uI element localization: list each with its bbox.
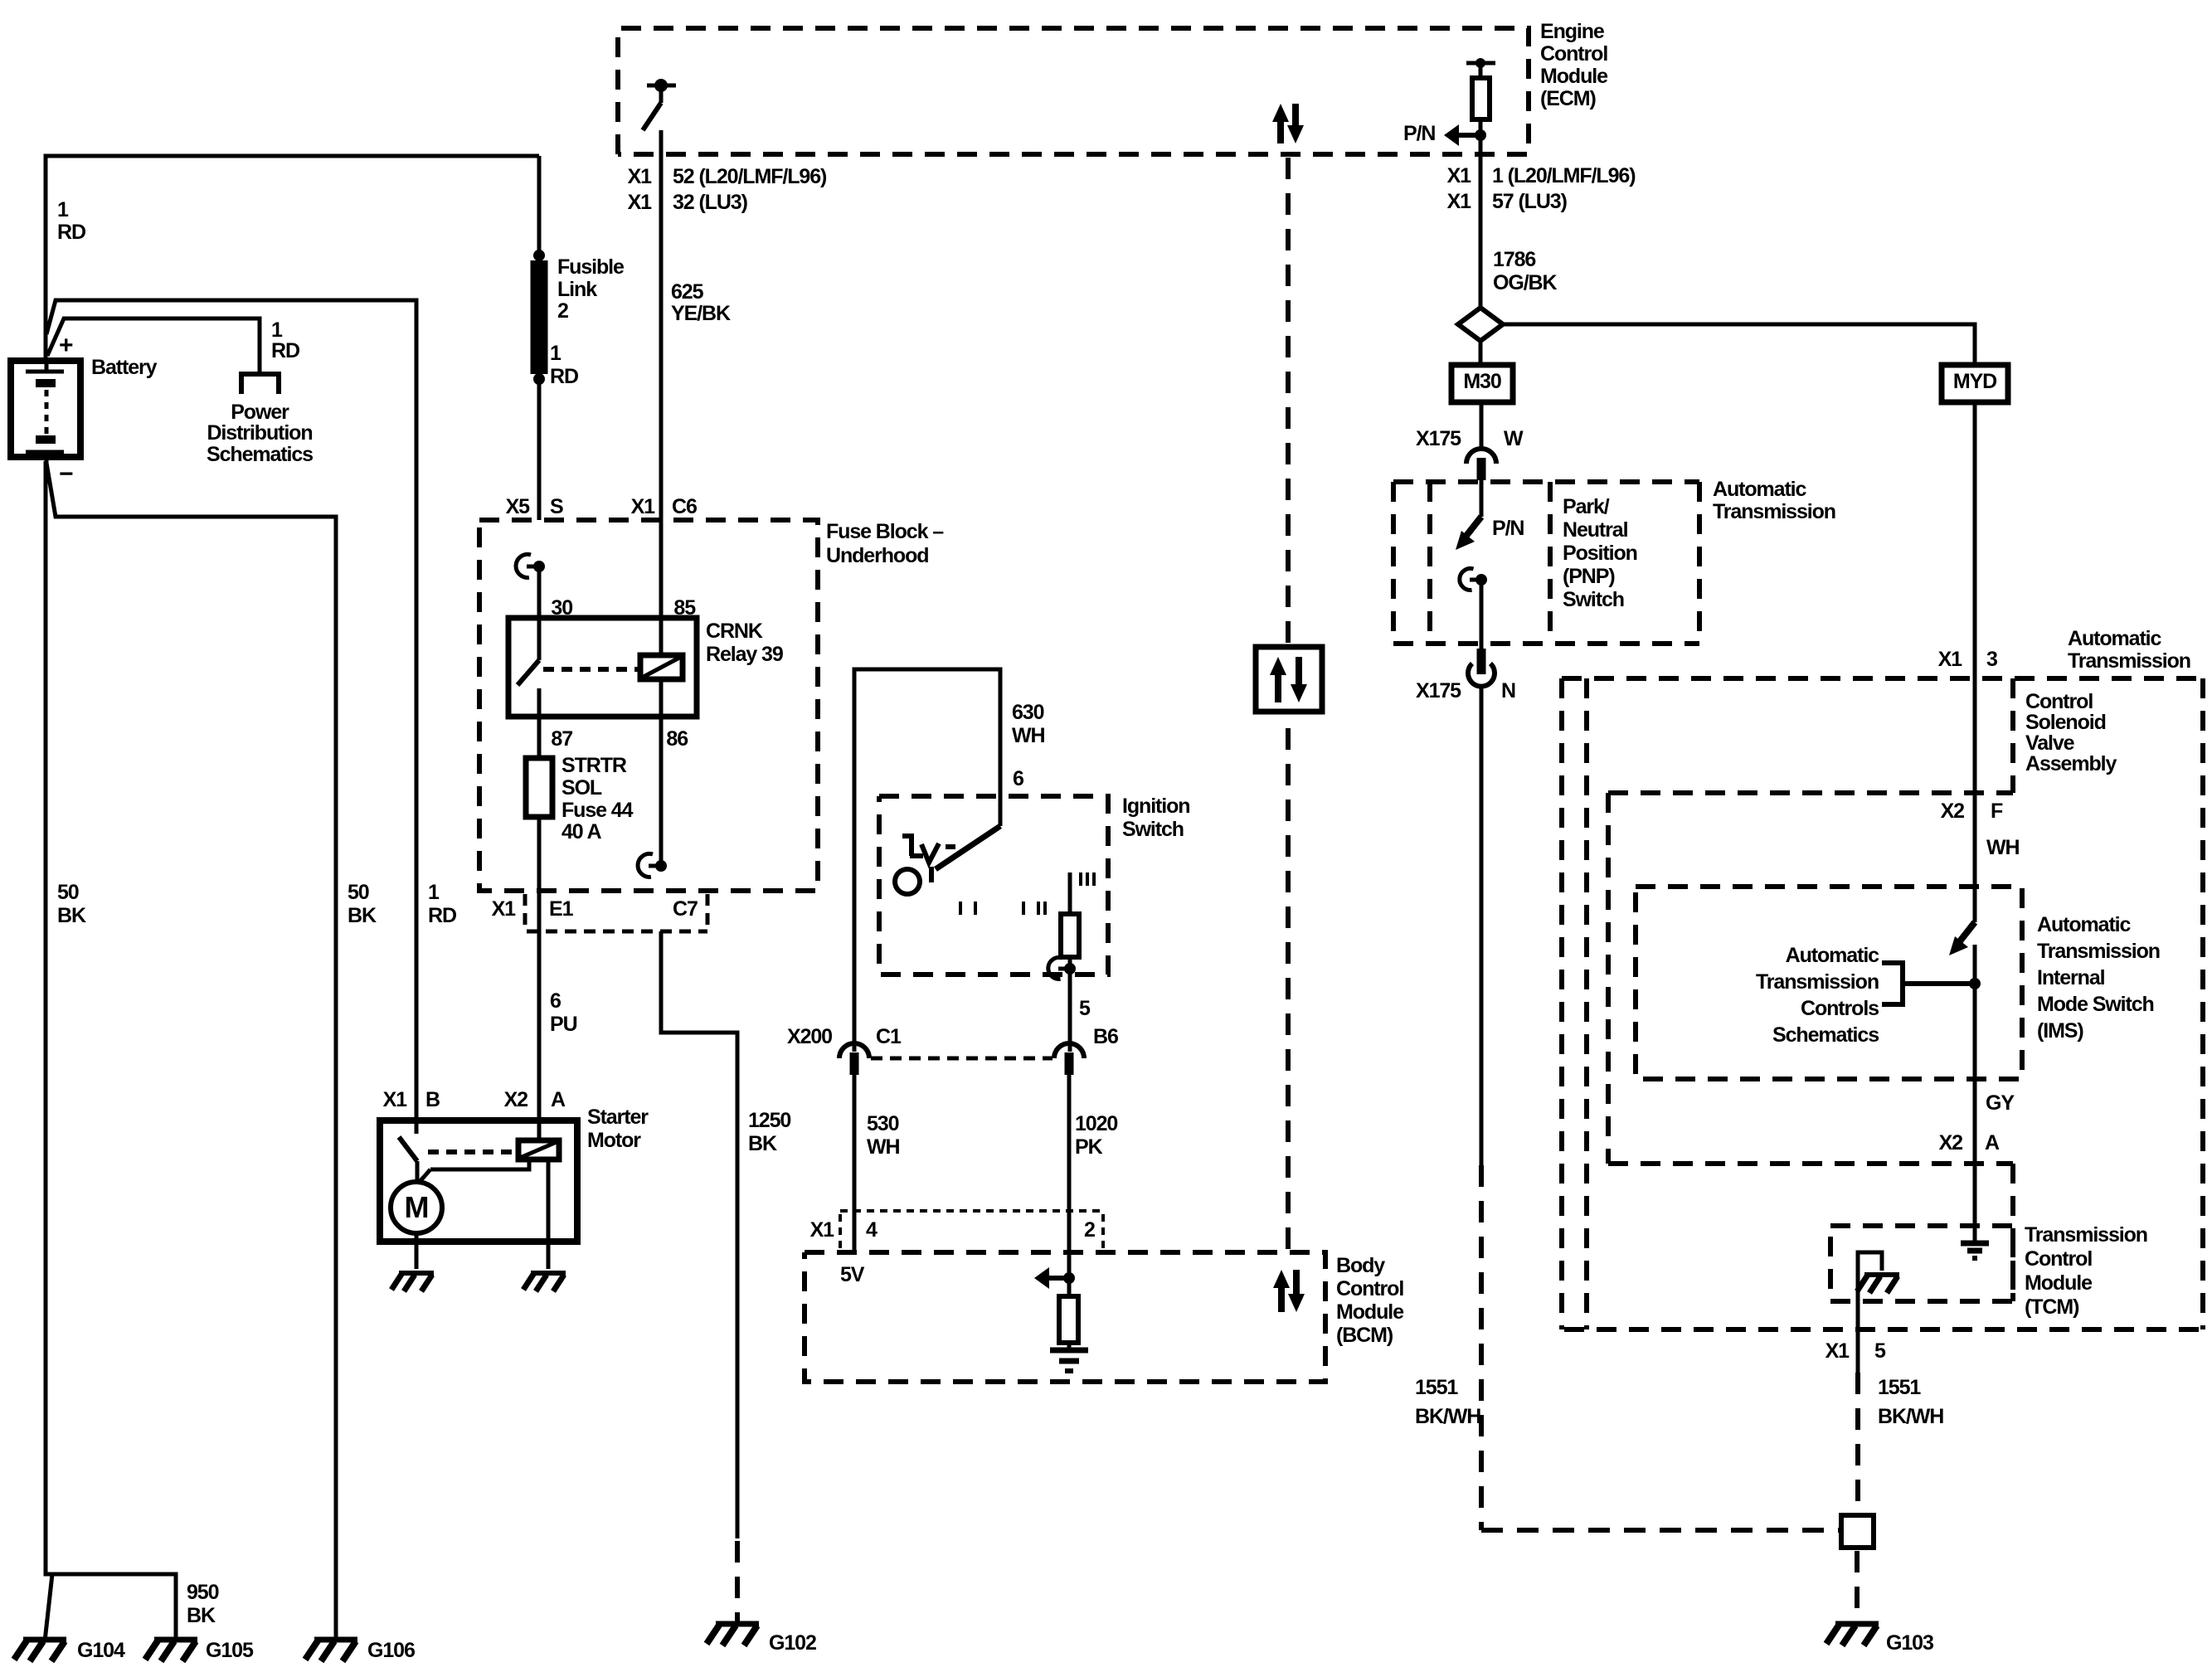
svg-text:OG/BK: OG/BK xyxy=(1493,271,1557,294)
svg-text:1551: 1551 xyxy=(1415,1376,1458,1399)
M30 label box xyxy=(1451,365,1513,402)
svg-text:CRNK: CRNK xyxy=(706,620,763,643)
svg-text:W: W xyxy=(1504,427,1524,450)
svg-text:X1: X1 xyxy=(1826,1339,1850,1363)
wire: 1 RD battery positive top feed xyxy=(46,156,539,361)
svg-text:BK/WH: BK/WH xyxy=(1878,1405,1943,1428)
svg-text:Automatic: Automatic xyxy=(1786,944,1880,967)
svg-text:E1: E1 xyxy=(549,897,574,921)
ground G105 xyxy=(145,1640,197,1661)
Fuse Block - Underhood dashed box xyxy=(479,520,818,891)
svg-text:+: + xyxy=(59,332,73,359)
wire MYD to CSVA xyxy=(1973,402,1977,922)
ground G106 xyxy=(305,1640,357,1661)
relay switch xyxy=(537,566,542,660)
svg-text:Battery: Battery xyxy=(91,356,158,379)
svg-text:X1: X1 xyxy=(628,165,653,188)
svg-text:RD: RD xyxy=(550,365,578,388)
ground G104 xyxy=(14,1640,66,1661)
svg-text:5: 5 xyxy=(1874,1339,1886,1363)
svg-text:Switch: Switch xyxy=(1122,818,1184,841)
off-page connector: power distribution xyxy=(241,374,279,394)
svg-text:G103: G103 xyxy=(1886,1631,1933,1655)
svg-text:Transmission: Transmission xyxy=(2037,940,2160,963)
svg-text:B6: B6 xyxy=(1093,1025,1118,1048)
Control Solenoid Valve Assembly box xyxy=(2010,678,2015,793)
terminal hook 86 xyxy=(638,853,667,877)
svg-text:M30: M30 xyxy=(1463,370,1501,393)
svg-text:A: A xyxy=(551,1088,566,1111)
wire 530 WH / 630 WH xyxy=(854,669,1000,1052)
svg-text:Underhood: Underhood xyxy=(826,544,928,567)
P/N signal arrow xyxy=(1475,129,1486,141)
svg-text:Neutral: Neutral xyxy=(1563,518,1628,542)
svg-text:1: 1 xyxy=(57,198,69,221)
svg-text:BK: BK xyxy=(748,1132,777,1155)
svg-text:(TCM): (TCM) xyxy=(2025,1295,2079,1319)
svg-text:40 A: 40 A xyxy=(562,820,602,843)
svg-text:5V: 5V xyxy=(840,1263,865,1286)
svg-text:B: B xyxy=(425,1088,440,1111)
splice diamond xyxy=(1458,308,1503,341)
svg-text:630: 630 xyxy=(1012,701,1044,724)
svg-text:Module: Module xyxy=(2025,1271,2093,1295)
svg-text:6: 6 xyxy=(1013,767,1023,790)
TCM case ground xyxy=(1858,1252,1882,1373)
svg-text:Body: Body xyxy=(1336,1254,1385,1277)
svg-text:Fusible: Fusible xyxy=(557,255,625,279)
MYD label box xyxy=(1942,365,2008,402)
svg-text:530: 530 xyxy=(867,1112,899,1135)
svg-text:Fuse Block –: Fuse Block – xyxy=(826,520,944,543)
svg-text:Transmission: Transmission xyxy=(1713,500,1835,523)
svg-text:Module: Module xyxy=(1540,65,1608,88)
svg-text:Switch: Switch xyxy=(1563,588,1624,611)
connector X200 xyxy=(839,1043,869,1075)
svg-text:5: 5 xyxy=(1079,997,1091,1020)
solenoid coil xyxy=(518,1140,559,1159)
svg-text:PU: PU xyxy=(550,1013,577,1036)
svg-text:RD: RD xyxy=(428,904,456,927)
wires to BCM xyxy=(853,1063,857,1252)
Park/Neutral Position switch dashed boxes xyxy=(1393,479,1699,484)
svg-text:Module: Module xyxy=(1336,1300,1404,1324)
svg-text:X175: X175 xyxy=(1416,427,1461,450)
svg-text:X2: X2 xyxy=(1941,800,1965,823)
svg-text:2: 2 xyxy=(1084,1218,1095,1242)
svg-text:WH: WH xyxy=(1986,836,2019,859)
wire: battery negative branches xyxy=(46,463,336,1641)
svg-text:Power: Power xyxy=(231,401,289,424)
svg-text:4: 4 xyxy=(866,1218,878,1242)
svg-text:X175: X175 xyxy=(1416,679,1461,702)
svg-text:Schematics: Schematics xyxy=(207,443,313,466)
svg-text:X2: X2 xyxy=(504,1088,528,1111)
svg-text:57 (LU3): 57 (LU3) xyxy=(1492,190,1568,213)
wire: battery positive to power distribution stub xyxy=(47,318,260,373)
svg-text:G105: G105 xyxy=(206,1639,254,1662)
svg-text:30: 30 xyxy=(551,596,572,620)
svg-text:Park/: Park/ xyxy=(1563,495,1610,518)
svg-text:P/N: P/N xyxy=(1492,517,1524,540)
wire 625 YE/BK xyxy=(659,130,664,520)
svg-text:BK: BK xyxy=(187,1604,216,1627)
svg-text:Mode Switch: Mode Switch xyxy=(2037,993,2154,1016)
svg-text:950: 950 xyxy=(187,1581,219,1604)
svg-text:1020: 1020 xyxy=(1075,1112,1117,1135)
svg-text:Transmission: Transmission xyxy=(1756,970,1879,994)
svg-text:Internal: Internal xyxy=(2037,966,2105,989)
ATCS bracket xyxy=(1882,963,1903,1004)
svg-text:Schematics: Schematics xyxy=(1772,1023,1879,1047)
svg-text:Automatic: Automatic xyxy=(2068,627,2162,650)
TCM box xyxy=(1830,1226,2013,1301)
svg-text:MYD: MYD xyxy=(1953,370,1996,393)
svg-text:RD: RD xyxy=(57,221,85,244)
svg-text:X1: X1 xyxy=(1447,164,1472,187)
svg-text:Control: Control xyxy=(2025,1247,2092,1271)
svg-text:X1: X1 xyxy=(628,191,653,214)
svg-text:WH: WH xyxy=(1012,724,1044,747)
svg-text:52 (L20/LMF/L96): 52 (L20/LMF/L96) xyxy=(673,165,827,188)
svg-text:1: 1 xyxy=(271,318,283,342)
svg-text:(ECM): (ECM) xyxy=(1540,87,1596,110)
svg-text:−: − xyxy=(59,460,73,488)
BCM input arrow + pulldown xyxy=(1063,1272,1075,1284)
svg-text:A: A xyxy=(1985,1131,2000,1154)
svg-text:1250: 1250 xyxy=(748,1109,790,1132)
X1 connector strip E1 C7 xyxy=(523,894,527,929)
svg-text:1551: 1551 xyxy=(1878,1376,1921,1399)
svg-text:Automatic: Automatic xyxy=(2037,913,2132,936)
inner dashed verticals xyxy=(1606,793,1611,1164)
P/N switch xyxy=(1480,479,1484,517)
svg-text:BK/WH: BK/WH xyxy=(1415,1405,1480,1428)
relay coil xyxy=(640,655,683,679)
svg-text:P/N: P/N xyxy=(1403,122,1435,145)
svg-text:Fuse 44: Fuse 44 xyxy=(562,799,634,822)
connector X175 W xyxy=(1466,449,1496,480)
svg-text:Starter: Starter xyxy=(587,1106,649,1129)
Starter Motor box xyxy=(380,1120,577,1242)
svg-text:(BCM): (BCM) xyxy=(1336,1324,1393,1347)
svg-text:Relay 39: Relay 39 xyxy=(706,643,783,666)
svg-text:YE/BK: YE/BK xyxy=(671,302,731,325)
solenoid switch xyxy=(415,1120,419,1134)
STRTR SOL Fuse 44 40A xyxy=(526,758,552,817)
svg-text:Distribution: Distribution xyxy=(207,421,312,445)
terminal hook 30 xyxy=(516,554,545,577)
updown arrows in ECM xyxy=(1272,104,1304,143)
Engine Control Module (ECM) dashed box xyxy=(618,28,1529,154)
ECM internal P/N pull-up resistor xyxy=(1466,61,1495,66)
ground G103 xyxy=(1826,1624,1879,1645)
svg-text:G102: G102 xyxy=(769,1631,816,1655)
wire 1786 OG/BK xyxy=(1479,158,1483,308)
wire: battery positive to fusible-link/starter branch xyxy=(46,300,416,1120)
inline connector square xyxy=(1481,1528,1841,1533)
svg-text:Ignition: Ignition xyxy=(1122,795,1189,818)
svg-text:X1: X1 xyxy=(1938,648,1963,671)
fusible link 2 xyxy=(537,156,542,255)
svg-text:1 (L20/LMF/L96): 1 (L20/LMF/L96) xyxy=(1492,164,1636,187)
svg-text:Motor: Motor xyxy=(587,1129,641,1152)
svg-text:625: 625 xyxy=(671,280,704,304)
svg-text:85: 85 xyxy=(673,596,696,620)
ground G102 xyxy=(707,1624,759,1645)
ignition resistor xyxy=(1068,872,1072,914)
ECM-BCM serial data dashed line xyxy=(1286,158,1291,1252)
svg-text:X1: X1 xyxy=(631,495,656,518)
svg-text:Automatic: Automatic xyxy=(1713,478,1807,501)
svg-text:50: 50 xyxy=(348,881,369,904)
svg-text:3: 3 xyxy=(1986,648,1997,671)
svg-text:Transmission: Transmission xyxy=(2025,1223,2147,1247)
svg-text:X1: X1 xyxy=(1447,190,1472,213)
svg-text:X2: X2 xyxy=(1939,1131,1963,1154)
Body Control Module (BCM) dashed box xyxy=(805,1252,1325,1382)
svg-text:2: 2 xyxy=(557,299,568,323)
Automatic Transmission outer dashed box xyxy=(1562,676,2203,681)
connector X175 N xyxy=(1468,649,1495,687)
svg-text:C6: C6 xyxy=(672,495,697,518)
svg-text:Link: Link xyxy=(557,278,597,301)
svg-text:Controls: Controls xyxy=(1801,997,1879,1020)
svg-text:Engine: Engine xyxy=(1540,20,1605,43)
svg-text:N: N xyxy=(1501,679,1515,702)
svg-text:Control: Control xyxy=(1540,42,1607,66)
svg-text:GY: GY xyxy=(1986,1091,2015,1115)
ECM crank request switch xyxy=(647,84,676,88)
svg-text:Valve: Valve xyxy=(2025,731,2075,755)
svg-text:6: 6 xyxy=(550,989,561,1013)
battery xyxy=(11,361,80,457)
TCM internal ground for GY xyxy=(1961,1243,1989,1258)
ignition switch blade xyxy=(936,826,1000,869)
svg-text:PK: PK xyxy=(1075,1135,1103,1159)
svg-text:1: 1 xyxy=(428,881,440,904)
svg-text:Solenoid: Solenoid xyxy=(2025,711,2106,734)
svg-text:(IMS): (IMS) xyxy=(2037,1019,2083,1043)
svg-text:BK: BK xyxy=(57,904,86,927)
svg-text:G106: G106 xyxy=(367,1639,415,1662)
key symbol xyxy=(902,834,914,838)
svg-text:X1: X1 xyxy=(492,897,517,921)
svg-text:STRTR: STRTR xyxy=(562,754,627,777)
svg-text:M: M xyxy=(405,1190,429,1224)
svg-text:50: 50 xyxy=(57,881,79,904)
IMS switch xyxy=(1957,922,1975,945)
svg-text:S: S xyxy=(550,495,563,518)
svg-text:WH: WH xyxy=(867,1135,899,1159)
svg-text:86: 86 xyxy=(666,727,688,751)
svg-text:G104: G104 xyxy=(77,1639,125,1662)
boxed updown arrows xyxy=(1256,647,1322,712)
svg-text:Position: Position xyxy=(1563,542,1637,565)
svg-text:X1: X1 xyxy=(383,1088,408,1111)
svg-text:87: 87 xyxy=(551,727,572,751)
motor M xyxy=(391,1182,442,1233)
position marks xyxy=(960,902,975,915)
svg-text:SOL: SOL xyxy=(562,776,602,800)
svg-text:F: F xyxy=(1991,800,2003,823)
svg-text:Control: Control xyxy=(1336,1277,1403,1300)
svg-text:1: 1 xyxy=(550,342,562,365)
svg-text:32 (LU3): 32 (LU3) xyxy=(673,191,748,214)
svg-text:X1: X1 xyxy=(810,1218,835,1242)
CRNK Relay 39 xyxy=(508,618,697,717)
svg-text:C7: C7 xyxy=(673,897,698,921)
BCM X1 connector strip xyxy=(840,1209,1105,1213)
svg-text:Control: Control xyxy=(2025,690,2093,713)
wire 1551 BK/WH left xyxy=(1480,687,1484,1165)
svg-text:X200: X200 xyxy=(787,1025,832,1048)
svg-text:Transmission: Transmission xyxy=(2068,649,2190,673)
svg-text:(PNP): (PNP) xyxy=(1563,565,1615,588)
IMS box xyxy=(1636,887,2022,1079)
svg-text:C1: C1 xyxy=(876,1025,902,1048)
wire 1551 BK/WH right xyxy=(1855,1373,1860,1515)
svg-text:1786: 1786 xyxy=(1493,248,1535,271)
svg-text:RD: RD xyxy=(271,339,299,362)
wire 1250 BK xyxy=(661,931,737,1538)
svg-text:Assembly: Assembly xyxy=(2025,752,2117,775)
svg-text:X5: X5 xyxy=(506,495,531,518)
svg-text:BK: BK xyxy=(348,904,377,927)
wire M30 to X175 W xyxy=(1480,402,1484,448)
Ignition Switch dashed box xyxy=(879,796,1108,975)
